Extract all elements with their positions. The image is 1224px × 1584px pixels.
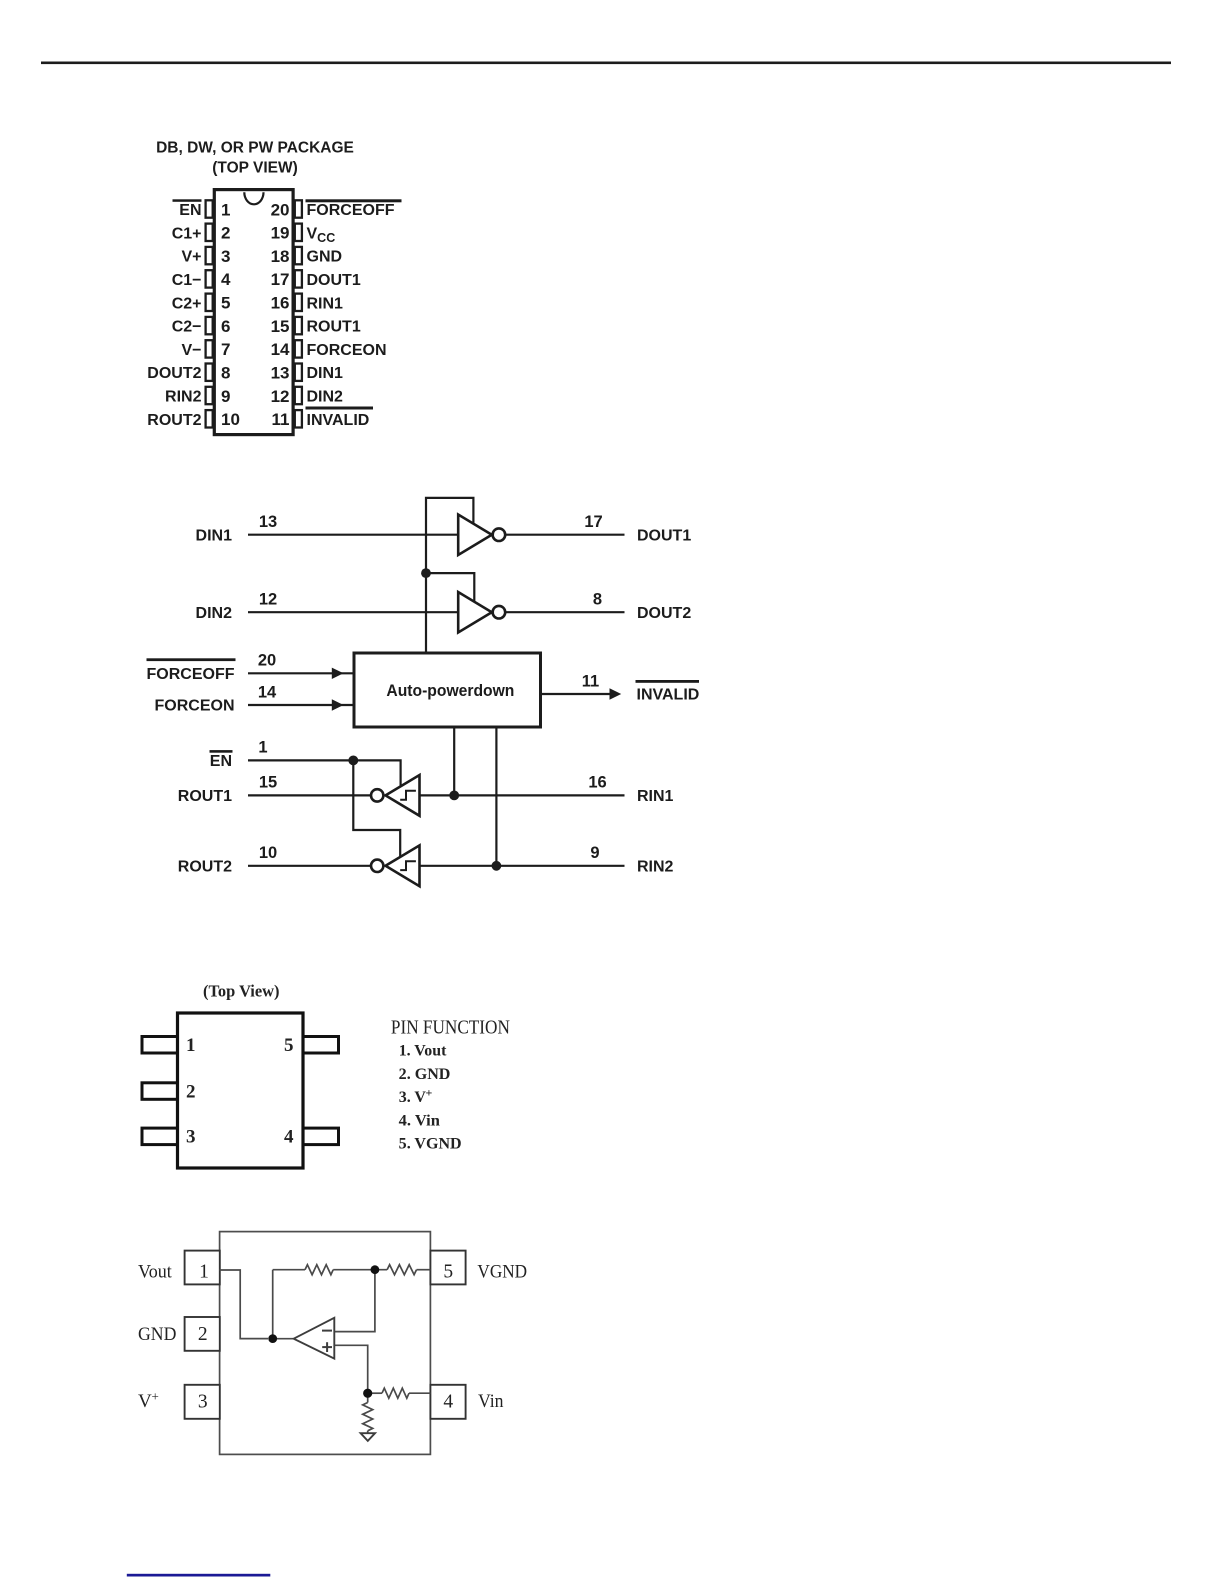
svg-text:4: 4 [284,1127,294,1148]
svg-text:1. Vout: 1. Vout [399,1043,447,1060]
svg-text:INVALID: INVALID [307,412,370,429]
svg-text:ROUT1: ROUT1 [307,319,361,336]
receiver U1D (schmitt inverter) [371,845,420,886]
arrowhead FORCEON [332,699,344,710]
wire auto-powerdown to RIN1 [453,727,455,795]
pin 7 tab [206,340,213,357]
svg-text:11: 11 [272,410,290,429]
wire DOUT1 output [505,534,624,536]
ground symbol [361,1433,375,1441]
svg-text:Vin: Vin [478,1391,504,1412]
svg-text:11: 11 [582,672,599,690]
wire R3 to pin 4 [409,1392,430,1394]
pin 12 tab [295,387,302,404]
pin 1 box [185,1251,220,1285]
svg-text:3: 3 [221,247,230,266]
wire node to inverting input [334,1270,375,1332]
svg-text:C2+: C2+ [172,295,202,312]
svg-text:10: 10 [221,410,240,429]
svg-text:(Top View): (Top View) [203,981,280,1000]
svg-text:C1−: C1− [172,272,202,289]
wire op-amp output [273,1338,294,1340]
pin 2 tab [206,224,213,241]
svg-text:16: 16 [271,294,290,313]
svg-text:14: 14 [258,683,277,701]
svg-text:DIN2: DIN2 [196,605,233,622]
svg-text:12: 12 [271,387,290,406]
wire bottom row to R3 [368,1392,382,1394]
svg-text:13: 13 [271,364,290,383]
arrowhead FORCEOFF [332,668,344,679]
svg-text:2. GND: 2. GND [399,1066,451,1083]
svg-text:DOUT1: DOUT1 [637,527,691,544]
svg-text:8: 8 [593,591,602,609]
op-amp plus sign [322,1346,332,1348]
svg-text:5: 5 [443,1261,453,1282]
pin 6 tab [206,317,213,334]
svg-text:10: 10 [259,844,277,862]
pin 5 tab [303,1037,339,1054]
pin 3 tab [142,1128,178,1145]
svg-text:DOUT2: DOUT2 [637,605,691,622]
wire FORCEON input [248,704,354,706]
pin 16 tab [295,294,302,311]
wire DOUT2 output [505,611,624,613]
svg-text:RIN2: RIN2 [165,389,202,406]
wire powerdown control vertical [426,498,473,653]
svg-text:V−: V− [181,342,201,359]
svg-text:3. V: 3. V [399,1089,427,1106]
svg-text:4: 4 [221,270,231,289]
wire auto-powerdown to RIN2 [495,727,497,866]
svg-text:1: 1 [221,200,230,219]
svg-text:DIN2: DIN2 [307,389,344,406]
svg-text:3: 3 [198,1391,208,1412]
arrowhead INVALID [610,688,622,699]
svg-text:VCC: VCC [307,225,336,245]
wire EN branch to receiver 2 [353,760,400,856]
svg-text:C2−: C2− [172,319,202,336]
driver buffer U1B [458,592,505,633]
svg-text:DB, DW, OR PW PACKAGE: DB, DW, OR PW PACKAGE [156,140,354,157]
svg-text:15: 15 [259,774,277,792]
op-amp U2 [294,1318,335,1359]
svg-text:DOUT1: DOUT1 [307,272,361,289]
svg-text:17: 17 [271,270,290,289]
wire from pin 1 to op-amp output node [220,1270,268,1339]
svg-text:2: 2 [198,1324,208,1345]
svg-text:9: 9 [590,844,599,862]
svg-text:1: 1 [186,1035,196,1056]
wire DIN2 input [248,611,459,613]
svg-text:FORCEOFF: FORCEOFF [147,666,235,683]
svg-text:GND: GND [307,249,343,266]
svg-text:14: 14 [271,340,290,359]
pin 19 tab [295,224,302,241]
wire ROUT2 output [248,865,371,867]
top horizontal rule [41,62,1171,65]
svg-text:(TOP VIEW): (TOP VIEW) [212,160,298,177]
op-amp minus sign [322,1330,332,1332]
driver buffer U1A [458,515,505,556]
pin 20 tab [295,200,302,217]
svg-text:1: 1 [199,1261,209,1282]
pin 5 tab [206,294,213,311]
IC pin-1 index notch [244,192,263,204]
wire EN input [248,760,401,786]
pin 1 tab [142,1037,178,1054]
svg-text:C1+: C1+ [172,225,202,242]
node: feedback divider junction [371,1265,380,1274]
svg-text:V: V [138,1391,152,1412]
wire FORCEOFF input [248,672,354,674]
pin 17 tab [295,270,302,287]
pin 4 box [430,1385,465,1419]
svg-text:DOUT2: DOUT2 [147,365,201,382]
svg-text:4: 4 [443,1391,453,1412]
svg-text:V+: V+ [181,249,201,266]
pin 14 tab [295,340,302,357]
pin 3 tab [206,247,213,264]
wire RIN2 input [420,865,625,867]
resistor R1 (feedback) [305,1265,333,1275]
svg-text:INVALID: INVALID [637,687,700,704]
svg-text:RIN2: RIN2 [637,858,674,875]
receiver U1C (schmitt inverter) [371,775,420,816]
svg-text:Vout: Vout [138,1261,172,1282]
pin 11 tab [295,410,302,427]
pin 9 tab [206,387,213,404]
pin 1 tab [206,200,213,217]
pin 3 box [185,1385,220,1419]
svg-text:2: 2 [186,1081,196,1102]
pin 18 tab [295,247,302,264]
pin 2 tab [142,1083,178,1100]
svg-text:9: 9 [221,387,230,406]
svg-text:6: 6 [221,317,230,336]
node: RIN1 junction [449,791,459,801]
svg-text:DIN1: DIN1 [196,527,233,544]
node: EN junction [348,756,358,766]
bottom blue link underline [127,1574,270,1577]
svg-text:VGND: VGND [477,1261,527,1282]
svg-text:12: 12 [259,591,277,609]
svg-text:16: 16 [588,774,606,792]
wire top feedback row left [273,1269,305,1271]
svg-text:19: 19 [271,224,290,243]
svg-text:17: 17 [584,513,602,531]
svg-text:15: 15 [271,317,290,336]
wire R1 to node [333,1269,387,1271]
wire noninverting input to divider [334,1345,367,1393]
pin 4 tab [206,270,213,287]
resistor R4 (divider to ground, vertical) [363,1403,373,1431]
svg-text:FORCEON: FORCEON [307,342,387,359]
svg-text:RIN1: RIN1 [637,788,674,805]
svg-text:DIN1: DIN1 [307,365,344,382]
Auto-powerdown block [354,653,541,727]
IC outline box [220,1232,431,1455]
svg-text:PIN FUNCTION: PIN FUNCTION [391,1017,510,1038]
pin 2 box [185,1317,220,1351]
wire R2 to pin 5 [417,1269,431,1271]
svg-text:Auto-powerdown: Auto-powerdown [386,682,514,700]
wire feedback vertical [272,1270,274,1339]
svg-text:13: 13 [259,513,277,531]
node: RIN2 junction [492,861,502,871]
svg-text:FORCEON: FORCEON [155,698,235,715]
node: powerdown sense junction [421,568,431,578]
resistor R3 (to Vin pin 4) [382,1388,409,1398]
svg-text:4. Vin: 4. Vin [399,1112,440,1129]
svg-text:EN: EN [179,202,201,219]
resistor R2 (to VGND pin 5) [387,1265,416,1275]
pin 15 tab [295,317,302,334]
node: op-amp output junction [268,1334,277,1343]
wire R4 to ground [367,1431,369,1433]
svg-text:ROUT2: ROUT2 [178,858,232,875]
wire node to R4 [367,1393,369,1402]
svg-text:FORCEOFF: FORCEOFF [307,202,395,219]
pin 5 box [430,1251,465,1285]
pin 10 tab [206,410,213,427]
wire INVALID output [541,693,613,695]
svg-text:ROUT1: ROUT1 [178,788,232,805]
svg-text:ROUT2: ROUT2 [147,412,201,429]
svg-text:20: 20 [271,200,290,219]
pin 4 tab [303,1128,339,1145]
svg-text:3: 3 [186,1127,196,1148]
svg-text:EN: EN [210,753,232,770]
wire DIN1 input [248,534,459,536]
svg-text:+: + [426,1086,433,1100]
svg-text:5: 5 [221,294,230,313]
package body [178,1013,304,1168]
wire RIN1 input [420,794,625,796]
svg-text:1: 1 [258,739,267,757]
wire ROUT1 output [248,794,371,796]
pin 13 tab [295,364,302,381]
wire powerdown control to buffer 2 [426,573,474,601]
pin 8 tab [206,364,213,381]
svg-text:5: 5 [284,1035,294,1056]
svg-text:+: + [152,1389,159,1404]
node: input divider junction [363,1389,372,1398]
svg-text:GND: GND [138,1324,176,1345]
svg-text:7: 7 [221,340,230,359]
svg-text:8: 8 [221,364,230,383]
svg-text:5. VGND: 5. VGND [399,1136,462,1153]
svg-text:20: 20 [258,652,276,670]
IC U1 body [214,190,293,435]
svg-text:18: 18 [271,247,290,266]
svg-text:RIN1: RIN1 [307,295,344,312]
svg-text:2: 2 [221,224,230,243]
